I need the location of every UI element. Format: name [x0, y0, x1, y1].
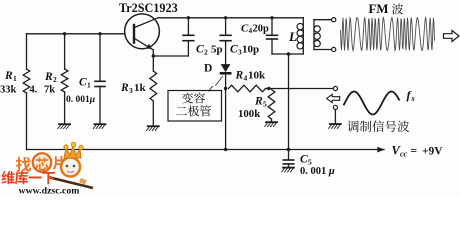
transistor collector stroke	[135, 18, 159, 28]
svg-text:10p: 10p	[242, 44, 259, 56]
box varactor callout	[168, 91, 222, 122]
svg-text:C: C	[300, 154, 308, 166]
resistor R2	[61, 69, 68, 92]
wire base bus	[27, 33, 125, 35]
wire secondary top out	[314, 19, 332, 21]
wire collector bus	[158, 17, 303, 19]
terminal fs bottom	[333, 105, 337, 109]
wire R2 top lead	[64, 34, 66, 69]
resistor R1	[23, 69, 30, 93]
wire C4 bottom lead	[271, 39, 273, 54]
logo weikuyixia (red)	[1, 171, 14, 184]
mascot head	[61, 158, 80, 177]
svg-text:1: 1	[13, 74, 17, 83]
svg-text:7k: 7k	[44, 85, 55, 96]
leader line to diode	[216, 77, 223, 86]
block arrow right	[444, 31, 460, 42]
ground C1	[95, 123, 106, 125]
wire fs bottom to ground	[334, 110, 336, 124]
svg-text:100k: 100k	[238, 108, 260, 120]
wire R1 top lead	[26, 34, 28, 69]
terminal bottom output	[332, 47, 336, 51]
ground R3	[148, 125, 159, 127]
node diode line / Vcc rail	[224, 148, 227, 151]
transistor base bar	[133, 25, 135, 43]
wire emitter down	[152, 50, 154, 56]
transistor emitter stroke	[135, 39, 154, 50]
capacitor C1	[95, 80, 105, 82]
svg-text:R: R	[235, 70, 244, 82]
emitter arrowhead	[146, 44, 151, 48]
ground R2	[59, 123, 70, 125]
svg-text:10k: 10k	[248, 70, 266, 82]
svg-text:4.: 4.	[30, 85, 38, 96]
ground C5	[283, 167, 294, 169]
wire C1 bottom lead	[99, 87, 101, 124]
svg-text:1: 1	[87, 81, 91, 90]
node collector/C3	[224, 16, 227, 19]
svg-text:C: C	[230, 44, 238, 56]
svg-text:www.dzsc.com: www.dzsc.com	[19, 186, 80, 197]
svg-text:C: C	[79, 77, 87, 89]
svg-text:=: =	[411, 146, 418, 158]
resistor R4	[229, 85, 266, 92]
svg-text:5p: 5p	[211, 44, 223, 56]
wire C1 top lead	[99, 34, 101, 82]
transformer secondary loops	[314, 26, 320, 32]
capacitor C5	[283, 159, 293, 161]
logo pian	[53, 156, 66, 170]
varactor diode D	[221, 64, 230, 72]
svg-text:R: R	[4, 70, 13, 82]
mascot pen	[50, 178, 93, 189]
wire R3 top lead	[152, 56, 154, 71]
svg-text:R: R	[120, 82, 129, 94]
wire R2 bottom lead	[64, 92, 66, 124]
svg-text:3: 3	[129, 86, 133, 95]
node base/R2	[63, 32, 66, 35]
node emitter	[152, 54, 155, 57]
capacitor C2	[183, 34, 194, 36]
ground R5	[266, 121, 277, 123]
transistor Q1 circle	[125, 14, 160, 49]
node collector/C2	[187, 16, 190, 19]
wire R5 bottom lead	[271, 119, 273, 122]
mascot face	[66, 165, 69, 168]
resistor R5	[268, 90, 275, 120]
svg-text:4: 4	[244, 74, 248, 83]
wire tank feed down to Vcc rail	[288, 54, 290, 150]
FM output waveform	[341, 18, 435, 51]
wire C5 bottom lead	[288, 164, 290, 167]
svg-text:5: 5	[263, 100, 267, 109]
node collector/C4	[270, 16, 273, 19]
node base/C1	[98, 32, 101, 35]
mascot crown	[64, 146, 81, 158]
modulation sine wave	[344, 92, 400, 115]
label FM bo (wave)	[392, 4, 403, 15]
svg-text:0. 001μ: 0. 001μ	[66, 95, 95, 105]
svg-text:33k: 33k	[0, 85, 17, 96]
ground fs	[330, 123, 341, 125]
svg-text:2: 2	[204, 48, 208, 57]
terminal top output	[332, 18, 336, 22]
wire C4 top lead	[271, 18, 273, 36]
resistor R3	[150, 71, 157, 101]
label bianrong (varactor) line1	[182, 92, 193, 103]
svg-text:2: 2	[53, 75, 57, 84]
wire secondary bottom out	[314, 49, 332, 51]
block arrow left (modulation in)	[327, 94, 340, 102]
label erjiguan line2	[176, 107, 187, 115]
svg-text:s: s	[411, 94, 415, 103]
wire R1 bottom lead to Vcc rail	[26, 93, 28, 150]
logo zhaoxinpian (find chips)	[16, 157, 31, 172]
svg-text:C: C	[196, 44, 204, 56]
svg-text:cc: cc	[400, 150, 408, 159]
svg-text:+9V: +9V	[422, 146, 443, 158]
capacitor C3	[220, 34, 231, 36]
Vcc arrowhead	[378, 147, 385, 152]
svg-text:L: L	[288, 29, 297, 44]
svg-text:20p: 20p	[253, 24, 270, 35]
svg-text:FM: FM	[369, 2, 389, 16]
svg-text:1k: 1k	[134, 82, 147, 94]
wire C2 top lead	[187, 18, 189, 36]
wire node to fs terminal	[269, 88, 333, 90]
inductor L primary loops	[297, 23, 303, 29]
capacitor C4	[267, 34, 278, 36]
node tank bottom	[287, 52, 290, 55]
terminal fs top	[333, 86, 337, 90]
wire emitter to C2	[153, 41, 188, 56]
wire C3 to diode	[225, 41, 227, 64]
wire R3 bottom lead	[152, 101, 154, 126]
svg-text:D: D	[204, 63, 212, 75]
svg-text:0. 001 μ: 0. 001 μ	[300, 166, 335, 177]
svg-text:Tr2SC1923: Tr2SC1923	[119, 1, 178, 15]
inductor L primary line	[302, 18, 304, 54]
wire C5 top lead	[288, 150, 290, 161]
svg-text:R: R	[44, 71, 53, 83]
node R4/R5	[267, 87, 270, 90]
wire C3 top lead	[225, 18, 227, 36]
wire tank bottom	[272, 53, 303, 55]
node diode/R4	[224, 87, 227, 90]
wire diode to R4 node	[225, 75, 227, 89]
Vcc rail	[27, 149, 385, 151]
transformer secondary line	[313, 20, 315, 50]
wire diode node down to Vcc rail	[225, 89, 227, 150]
wire R4 to node	[266, 88, 269, 90]
svg-text:R: R	[254, 96, 263, 108]
label tiaozhixinhaobo (modulation signal wave)	[347, 121, 358, 132]
logo badge circle	[33, 153, 52, 172]
node C5 / Vcc rail	[287, 148, 290, 151]
